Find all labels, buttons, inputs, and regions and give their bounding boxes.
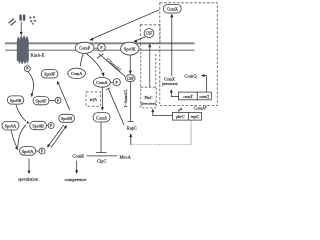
- Spo0F~P node: [33, 97, 61, 105]
- line Spo0H to Spo0F: [59, 84, 70, 110]
- curve ComP to ComA~P: [86, 54, 102, 72]
- gene box rapC: [188, 112, 201, 120]
- svg-text:sporulation: sporulation: [18, 177, 39, 182]
- svg-text:Spo0F: Spo0F: [44, 72, 56, 77]
- svg-text:Spo0H: Spo0H: [61, 116, 72, 121]
- ComS node: [93, 113, 110, 122]
- svg-text:P: P: [26, 67, 28, 71]
- svg-text:CSF: CSF: [146, 32, 153, 36]
- svg-text:ComA: ComA: [71, 71, 83, 76]
- signal marks: center bars: [19, 15, 25, 21]
- svg-text:competence: competence: [65, 177, 87, 182]
- svg-text:Spo0F: Spo0F: [36, 99, 48, 104]
- svg-text:Spo0K: Spo0K: [124, 46, 136, 51]
- ComK - MecA line: [86, 155, 117, 157]
- Spo0B node: [7, 96, 23, 104]
- CSF internal node: [126, 75, 136, 82]
- svg-text:ComP: ComP: [79, 46, 90, 51]
- CSF dashed box: [140, 25, 160, 44]
- P circle from KinA: [24, 66, 30, 72]
- svg-text:ComS: ComS: [96, 116, 108, 121]
- svg-text:ComAP: ComAP: [194, 105, 207, 110]
- svg-text:Spo0B: Spo0B: [32, 123, 44, 128]
- svg-text:phrC: phrC: [175, 114, 185, 119]
- arrow CSF to Spo0K: [136, 37, 146, 41]
- Spo0K node: [121, 42, 139, 55]
- svg-text:rapC: rapC: [191, 114, 200, 119]
- comX gene arrow to ComX precursor: [171, 92, 178, 97]
- membrane upper line: [5, 42, 195, 44]
- svg-text:ComA: ComA: [96, 80, 108, 85]
- membrane lower line: [5, 49, 195, 51]
- arrow Spo0K to internal CSF: [129, 55, 131, 71]
- ComA node: [68, 68, 86, 78]
- arrow ComX precursor to ComX: [171, 16, 173, 76]
- svg-text:PhrC: PhrC: [145, 96, 153, 100]
- rapC gene to RapC connector: [190, 120, 192, 145]
- double arrow Spo0H to Spo0A~P: [49, 125, 64, 146]
- curve Spo0A to Spo0A~P: [11, 130, 17, 147]
- link ComP to ComA: [80, 54, 83, 67]
- svg-text:RapC: RapC: [127, 126, 137, 131]
- large dashed cell box: [160, 3, 218, 106]
- CSF inhibits RapC: [130, 82, 132, 121]
- gene box phrC: [173, 112, 189, 120]
- ComA~P node: [93, 77, 120, 87]
- svg-text:Spo0B: Spo0B: [10, 98, 22, 103]
- arrow PhrC precursor to CSF: [149, 46, 151, 87]
- svg-text:MecA: MecA: [120, 155, 132, 160]
- arrow ComK to competence: [76, 161, 78, 172]
- ComS inhibits ComK-ClpC-MecA: [100, 122, 102, 152]
- CSF inhibits ComP line with T-bar: [99, 54, 125, 77]
- KinA-E transmembrane protein: [17, 35, 29, 64]
- PhrC precursor dashed box: [141, 87, 156, 108]
- curve Spo0B~P to Spo0A~P: [18, 125, 26, 147]
- svg-text:precursor: precursor: [162, 81, 178, 86]
- svg-text:Spo0A: Spo0A: [5, 124, 17, 129]
- curve Spo0B to Spo0B~P: [16, 104, 26, 121]
- CSF external node: [144, 28, 154, 37]
- secretion channel dashed lines: [140, 44, 142, 87]
- svg-text:Spo0A: Spo0A: [22, 149, 34, 154]
- signal marks: left dashes: [9, 19, 16, 26]
- svg-text:1~5nmol/L: 1~5nmol/L: [123, 89, 128, 108]
- svg-text:CSF: CSF: [127, 77, 134, 81]
- Spo0B~P node: [30, 121, 54, 129]
- phrC gene to PhrC precursor arrow: [153, 111, 173, 116]
- svg-text:ClpC: ClpC: [97, 158, 107, 163]
- svg-text:P: P: [41, 150, 43, 154]
- ComP node: [75, 42, 105, 53]
- gene box comX: [179, 92, 198, 100]
- Spo0A~P node: [20, 147, 45, 156]
- svg-text:ComQ: ComQ: [184, 74, 197, 79]
- comQ gene connector arrow: [203, 76, 207, 93]
- gene box comQ: [197, 92, 211, 100]
- Spo0A node: [2, 121, 19, 130]
- signal marks: right square cluster: [29, 16, 35, 24]
- arrow signals to KinA: [20, 22, 23, 36]
- svg-text:(precursor): (precursor): [141, 102, 156, 106]
- curve P to Spo0F~P: [28, 72, 34, 95]
- svg-text:ComX: ComX: [167, 7, 178, 12]
- Spo0H node: [59, 114, 75, 122]
- arrow ComA~P to ComS: [101, 87, 103, 108]
- svg-text:comX: comX: [183, 94, 193, 99]
- svg-text:P: P: [50, 124, 52, 128]
- arrow ComX to ComP: [92, 10, 159, 39]
- ComX node: [163, 4, 181, 13]
- srfA dashed box: [86, 92, 101, 106]
- svg-text:srfA: srfA: [90, 97, 97, 102]
- double arrow Spo0A~P to Spo0H: [51, 127, 66, 148]
- RapC inhibits ComA~P: [108, 89, 124, 126]
- svg-text:ComK: ComK: [72, 153, 85, 158]
- svg-text:KinA-E: KinA-E: [31, 53, 45, 58]
- Spo0F node: [41, 70, 58, 78]
- arrow Spo0A~P to sporulation: [28, 158, 30, 171]
- svg-text:comQ: comQ: [199, 94, 209, 99]
